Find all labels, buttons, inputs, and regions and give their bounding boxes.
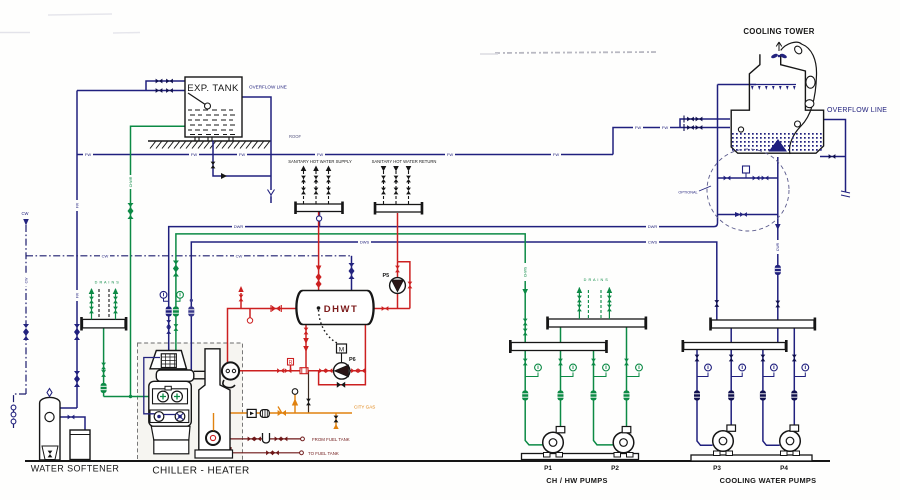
fuel line end flanges bbox=[301, 437, 305, 441]
gas meter bbox=[260, 410, 269, 418]
navy lower header bbox=[682, 340, 788, 352]
gas drip leg valve bbox=[334, 416, 339, 423]
exp tank legs bbox=[195, 137, 233, 141]
wire drains manifold stem left bbox=[103, 328, 105, 397]
wire gas regulator riser bbox=[294, 394, 296, 413]
EXP TANK vessel bbox=[185, 77, 242, 141]
wire city gas main bbox=[214, 412, 353, 414]
softener top fitting bbox=[47, 389, 52, 397]
supply riser flow arrow bbox=[316, 266, 322, 272]
svg-text:CW: CW bbox=[24, 277, 28, 283]
exp tank water fill pattern bbox=[188, 110, 235, 135]
gas regulator box bbox=[247, 409, 256, 417]
svg-text:WATER SOFTENER: WATER SOFTENER bbox=[31, 464, 120, 474]
DHWT tank bbox=[296, 291, 374, 325]
fuel line valves bbox=[248, 437, 288, 456]
pump P1 bbox=[543, 427, 565, 458]
downcomer flex bbox=[775, 265, 781, 275]
wire green chiller inlet horizontal bbox=[104, 396, 157, 398]
svg-text:FW: FW bbox=[75, 202, 79, 208]
wire tower drain stub bbox=[820, 156, 846, 158]
P3/P4 gauges bbox=[697, 373, 805, 377]
optional leader line bbox=[699, 186, 711, 191]
svg-text:CWS: CWS bbox=[648, 240, 658, 245]
navy upper header bbox=[709, 318, 816, 331]
P6 suction valves bbox=[319, 368, 326, 373]
overflow funnel Y symbol bbox=[268, 190, 275, 200]
machine dial circles lower bbox=[154, 412, 164, 422]
svg-text:OVERFLOW LINE: OVERFLOW LINE bbox=[827, 107, 887, 114]
svg-text:FW: FW bbox=[85, 152, 91, 157]
bypass lower valve bbox=[740, 212, 747, 217]
R relief component bbox=[288, 359, 294, 366]
hanging gauge bbox=[247, 318, 252, 323]
drain check arrow bbox=[221, 173, 227, 179]
boiler line gate valves bbox=[277, 368, 291, 373]
bypass PRV box bbox=[743, 166, 750, 173]
svg-text:DWR: DWR bbox=[234, 224, 244, 229]
svg-text:CHWR: CHWR bbox=[129, 176, 133, 187]
svg-text:CHILLER - HEATER: CHILLER - HEATER bbox=[152, 466, 249, 477]
svg-text:M: M bbox=[339, 347, 344, 354]
svg-text:DWS: DWS bbox=[360, 240, 370, 245]
svg-text:SANITARY HOT WATER SUPPLY: SANITARY HOT WATER SUPPLY bbox=[288, 159, 352, 164]
flanged tee component bbox=[300, 368, 308, 374]
wire boiler outlet line bbox=[239, 370, 334, 372]
tower drain valve bbox=[829, 154, 836, 159]
svg-text:FW: FW bbox=[447, 152, 453, 157]
wire FW make-up main horizontal bbox=[77, 154, 613, 156]
P2 suction symbols bbox=[591, 359, 596, 366]
sanitary hot water return manifold bar bbox=[374, 202, 424, 215]
svg-text:OVERFLOW LINE: OVERFLOW LINE bbox=[249, 85, 287, 90]
WATER SOFTENER tank bbox=[40, 397, 60, 460]
left drains risers bbox=[92, 289, 116, 319]
chiller risers: CWS flex bbox=[188, 299, 194, 317]
green lower header bbox=[509, 340, 608, 353]
P6 discharge valves bbox=[319, 368, 365, 373]
oil filter pot bbox=[263, 433, 270, 443]
svg-text:DWR: DWR bbox=[648, 224, 658, 229]
tower basin triangle bbox=[769, 139, 788, 152]
green entry arrow bbox=[151, 394, 157, 400]
wire CWR chiller to tower riser bbox=[169, 227, 714, 354]
wire FW step up to tower level bbox=[613, 128, 730, 155]
DHWT outlet flanged valve bbox=[272, 306, 280, 312]
line labels FW bbox=[83, 125, 670, 157]
DHW heater port circle bbox=[222, 362, 239, 379]
chiller-heater dashed enclosure bbox=[138, 343, 243, 461]
wire softener feed elbow bbox=[50, 408, 77, 413]
machine dial circles upper bbox=[158, 391, 169, 402]
wire optional upper bypass bbox=[718, 177, 778, 179]
CHILLER-HEATER machine left body bbox=[149, 351, 194, 454]
FW strainer 1 bbox=[74, 324, 80, 340]
wire DHWT right nozzle pipe bbox=[374, 308, 410, 310]
downcomer flow arrow bbox=[775, 224, 781, 230]
svg-text:R: R bbox=[289, 360, 293, 366]
wire spray header feed bbox=[718, 84, 757, 86]
svg-text:CW: CW bbox=[102, 253, 109, 258]
green exp leg strainer bbox=[128, 203, 134, 219]
FW strainer 2 bbox=[74, 371, 80, 387]
tower basin water dots bbox=[732, 133, 822, 151]
P1 suction symbols bbox=[523, 359, 528, 366]
bypass valve bbox=[337, 382, 345, 388]
svg-text:TO FUEL TANK: TO FUEL TANK bbox=[308, 451, 339, 456]
wire from fuel tank line bbox=[221, 438, 302, 440]
wire P2 discharge riser bbox=[626, 327, 628, 427]
wire gas vent riser bbox=[308, 372, 310, 414]
pump P4 bbox=[780, 425, 801, 456]
exp tank gauge glass bbox=[188, 93, 206, 105]
make-up line valves bbox=[687, 117, 702, 130]
bypass upper valves bbox=[724, 176, 769, 217]
svg-text:P4: P4 bbox=[780, 465, 788, 472]
P3/P4 suction risers bbox=[697, 328, 794, 445]
wire relief stub bbox=[240, 293, 242, 309]
spray header with nozzles bbox=[750, 84, 796, 86]
svg-text:FROM FUEL TANK: FROM FUEL TANK bbox=[312, 437, 350, 442]
navy internal loop bbox=[144, 358, 176, 415]
floor / grade line bbox=[25, 460, 830, 462]
brine tank bbox=[70, 430, 90, 460]
svg-text:EXP. TANK: EXP. TANK bbox=[187, 83, 239, 94]
P1/P2 pump group: CHWS drop symbols bbox=[522, 289, 528, 335]
wire P6 discharge to tank bottom bbox=[350, 325, 366, 371]
drains stem valves bbox=[101, 363, 106, 370]
svg-text:D R A I N S: D R A I N S bbox=[584, 278, 609, 282]
svg-text:COOLING WATER PUMPS: COOLING WATER PUMPS bbox=[720, 476, 817, 485]
return manifold risers bbox=[384, 171, 409, 205]
wire gauge stub under line bbox=[249, 309, 251, 319]
wire cooling tower overflow piping bbox=[824, 120, 846, 193]
svg-text:P1: P1 bbox=[544, 465, 552, 472]
svg-text:FW: FW bbox=[75, 292, 79, 298]
softener outlet valve bbox=[68, 415, 75, 420]
wire to fuel tank line bbox=[231, 447, 302, 453]
svg-text:FW: FW bbox=[662, 125, 668, 130]
aquastat well dot bbox=[317, 306, 321, 310]
P1/P2 gauges bbox=[525, 373, 639, 377]
wire make-up upper branch bbox=[680, 119, 730, 128]
wire optional lower bypass bbox=[718, 214, 778, 216]
drains risers on green header bbox=[579, 288, 609, 320]
wire DHWT cold water drop bbox=[351, 256, 353, 291]
softener control circle bbox=[45, 412, 54, 421]
wire tank bottom drain to boiler line bbox=[305, 325, 307, 371]
boiler chimney bbox=[199, 349, 230, 450]
gas pressure regulator bbox=[292, 399, 298, 406]
svg-text:FW: FW bbox=[553, 152, 559, 157]
basin right port circle bbox=[795, 121, 801, 127]
burner port circle bbox=[206, 431, 220, 445]
wire P2 suction riser bbox=[594, 351, 614, 445]
pump base P1/P2 bbox=[522, 454, 639, 460]
float valve ball bbox=[738, 127, 743, 132]
tower fan propeller bbox=[770, 53, 787, 59]
svg-text:CW: CW bbox=[22, 211, 29, 216]
svg-text:COOLING TOWER: COOLING TOWER bbox=[743, 27, 814, 36]
COOLING TOWER body outline bbox=[731, 54, 823, 153]
supply riser valve at tank bbox=[316, 273, 322, 288]
downcomer valve bbox=[775, 301, 780, 308]
wire CWR elbow up bbox=[714, 85, 718, 227]
svg-text:SANITARY HOT WATER RETURN: SANITARY HOT WATER RETURN bbox=[372, 159, 437, 164]
softener gravel section bbox=[42, 446, 58, 460]
svg-text:CHWS: CHWS bbox=[524, 266, 528, 277]
P3/P4 riser valves bbox=[694, 355, 797, 401]
svg-text:P5: P5 bbox=[383, 273, 390, 279]
wire P1 discharge riser bbox=[560, 327, 562, 427]
wire supply manifold drain stem bbox=[319, 212, 321, 227]
gas cock bbox=[278, 410, 286, 416]
tower circulation loop bbox=[781, 42, 817, 154]
svg-text:D R A I N S: D R A I N S bbox=[95, 281, 120, 285]
pump base P3/P4 bbox=[691, 455, 812, 461]
wire P1 suction riser bbox=[525, 351, 543, 445]
svg-text:FW: FW bbox=[317, 152, 323, 157]
wire CWS supply from pumps to chiller bbox=[191, 242, 717, 370]
city water PRV stack bbox=[11, 405, 16, 424]
wire red DHW supply riser to manifold bbox=[228, 212, 410, 385]
roof line with hatching bbox=[148, 141, 271, 149]
line labels DWR/DWS/CW bbox=[100, 224, 659, 259]
wire R relief stub bbox=[290, 365, 292, 371]
wire DHWT left nozzle pipe bbox=[228, 309, 297, 363]
exp tank drain valve bbox=[211, 162, 216, 169]
motor box M bbox=[337, 344, 347, 353]
optional dashed circle bbox=[707, 149, 789, 231]
svg-text:FW: FW bbox=[191, 152, 197, 157]
svg-text:ROOF: ROOF bbox=[289, 134, 302, 139]
wire red return manifold to P5 bbox=[397, 213, 399, 262]
cold drop strainer bbox=[349, 263, 355, 279]
CW entry arrow bbox=[23, 219, 29, 226]
tower discharge arrow bbox=[776, 42, 782, 51]
make-up flanges bbox=[683, 116, 685, 132]
CW strainer bbox=[23, 324, 29, 340]
svg-text:FW: FW bbox=[239, 152, 245, 157]
boiler base bbox=[195, 450, 233, 458]
svg-text:P2: P2 bbox=[611, 465, 619, 472]
svg-text:OPTIONAL: OPTIONAL bbox=[678, 191, 697, 195]
svg-text:CH / HW PUMPS: CH / HW PUMPS bbox=[546, 476, 607, 485]
chiller risers: CWR gauge bbox=[160, 291, 172, 334]
wire P5 leg bbox=[397, 262, 399, 309]
wire city water PRV leg bbox=[14, 394, 27, 428]
pump P3 bbox=[713, 425, 736, 456]
wire gas drip leg bbox=[335, 413, 337, 429]
capillary dotted curve bbox=[319, 310, 340, 344]
wire exp tank feed upper stub bbox=[146, 81, 185, 91]
wire tower downcomer to pumps bbox=[777, 157, 779, 343]
svg-text:CW: CW bbox=[236, 253, 243, 258]
crossover duct bbox=[194, 371, 205, 379]
DHWT inlet valve right bbox=[382, 306, 389, 311]
P2 discharge symbols bbox=[624, 359, 629, 366]
svg-text:CWR: CWR bbox=[776, 242, 780, 251]
sanitary hot water supply manifold bar bbox=[294, 202, 344, 215]
rotated pipe labels bbox=[23, 175, 780, 301]
relief valve on stub bbox=[239, 295, 244, 302]
supply riser drain circle valve bbox=[317, 216, 322, 221]
wire P5 loop top bbox=[398, 262, 410, 309]
tank drain valves bbox=[303, 328, 309, 352]
wire CHWS chiller to pump header bbox=[176, 234, 525, 392]
svg-text:DHWT: DHWT bbox=[324, 304, 359, 315]
wire city water dash-dot riser bbox=[14, 225, 352, 428]
P5 pump circle bbox=[390, 278, 406, 294]
pump P6 bbox=[334, 363, 350, 379]
P5 suction valve bbox=[395, 266, 400, 273]
chiller risers: CHW gauge bbox=[173, 261, 184, 331]
wire exp tank bottom drain bbox=[213, 141, 271, 177]
gas vent valve bbox=[306, 399, 311, 406]
bypass flow arrow bbox=[735, 212, 741, 217]
exp tank inlet valves bbox=[156, 79, 173, 93]
P1 discharge symbols bbox=[558, 359, 563, 366]
svg-text:CITY GAS: CITY GAS bbox=[354, 405, 375, 410]
heater port bracket bbox=[223, 380, 235, 388]
left drains manifold bar bbox=[80, 317, 127, 331]
svg-text:P3: P3 bbox=[713, 465, 721, 472]
supply manifold risers bbox=[304, 171, 329, 204]
pump P2 bbox=[613, 427, 634, 458]
svg-text:FW: FW bbox=[635, 125, 641, 130]
wire P6 bypass bbox=[319, 371, 366, 385]
wire gas drop to burner bbox=[213, 413, 215, 431]
wire city water dash-dot horizontal bbox=[26, 255, 352, 257]
green upper header bbox=[546, 317, 647, 330]
wire exp tank overflow bbox=[242, 97, 271, 190]
CWS feed valve bbox=[714, 300, 719, 307]
svg-text:P6: P6 bbox=[349, 357, 356, 363]
wire exp tank feed line bbox=[77, 90, 185, 92]
wire FW riser left vertical bbox=[76, 91, 78, 409]
green junction dot bbox=[129, 395, 132, 398]
wire overflow funnel outlet bbox=[270, 197, 272, 204]
P5 check valve right leg bbox=[408, 282, 413, 289]
overflow pipe break symbol bbox=[841, 191, 850, 197]
wire softener outlet to brine bbox=[54, 417, 85, 430]
